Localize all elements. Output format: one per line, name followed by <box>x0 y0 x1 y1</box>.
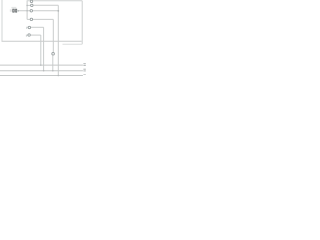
junction dot pin wire x bus 2 <box>52 70 54 72</box>
wire: vertical down to pin circle <box>52 19 54 52</box>
terminal circle 5 <box>28 26 30 28</box>
component box glyph 1 <box>12 9 14 13</box>
wire: terminal 5 left stub <box>27 27 28 29</box>
wire: terminal 4 run right <box>33 18 53 20</box>
wire: terminal 6 left stub <box>26 35 27 37</box>
wire: bus vertical at left of terminals <box>26 1 28 20</box>
wire: terminal 5 vertical down to bus 2 <box>43 27 45 70</box>
component box glyph 2 slit <box>15 10 18 12</box>
wire: top horizontal run to right drop <box>27 0 82 2</box>
component label above box <box>11 7 16 8</box>
terminal circle 3 <box>30 10 32 12</box>
bus 3 end label <box>83 74 85 75</box>
junction dot long vertical x bus 3 <box>58 75 60 77</box>
wire: terminal 2 run right <box>33 4 58 6</box>
wire: below pin circle to bus 2 <box>52 55 54 70</box>
wire: terminal 6 vertical down to bus 1 <box>40 35 42 65</box>
junction dot bus x terminal-2 stub <box>26 5 28 7</box>
pin circle mid-wire <box>52 53 55 56</box>
junction dot long vertical x terminal-3 wire <box>57 10 59 12</box>
wire: terminal 6 run right <box>31 34 41 36</box>
junction dot terminal-6 wire x bus 1 <box>40 64 42 66</box>
terminal circle 2 <box>31 4 33 6</box>
component pin stub <box>18 10 19 12</box>
component box glyph 1 slit <box>12 10 15 12</box>
junction dot bus x terminal-3 wire <box>26 10 28 12</box>
bus 2 end label <box>83 69 85 70</box>
wire: bus corner to terminal 4 <box>27 18 30 20</box>
terminal circle 4 <box>30 18 32 20</box>
wire: long vertical down to bus 3 <box>57 5 59 75</box>
wire: enclosure left edge <box>1 0 3 41</box>
wire: component to terminal 3 and run right <box>17 10 58 12</box>
wire: lower-right horizontal <box>63 43 83 45</box>
terminal circle 6 <box>28 34 30 36</box>
wire: right vertical drop <box>81 1 83 45</box>
component faint mark left of box <box>10 9 12 12</box>
junction dot terminal-5 wire x bus 2 <box>43 70 45 72</box>
background <box>0 0 86 82</box>
bus line 1 <box>0 64 83 66</box>
bus 1 end label <box>83 62 85 65</box>
wire: terminal 5 run right <box>31 26 44 28</box>
wire: stub to terminal 2 <box>27 4 30 6</box>
terminal circle 1 <box>30 0 32 2</box>
bus line 3 <box>0 75 83 77</box>
bus line 2 <box>0 70 83 72</box>
component box glyph 2 <box>15 9 17 13</box>
wire: enclosure bottom edge <box>2 40 82 42</box>
